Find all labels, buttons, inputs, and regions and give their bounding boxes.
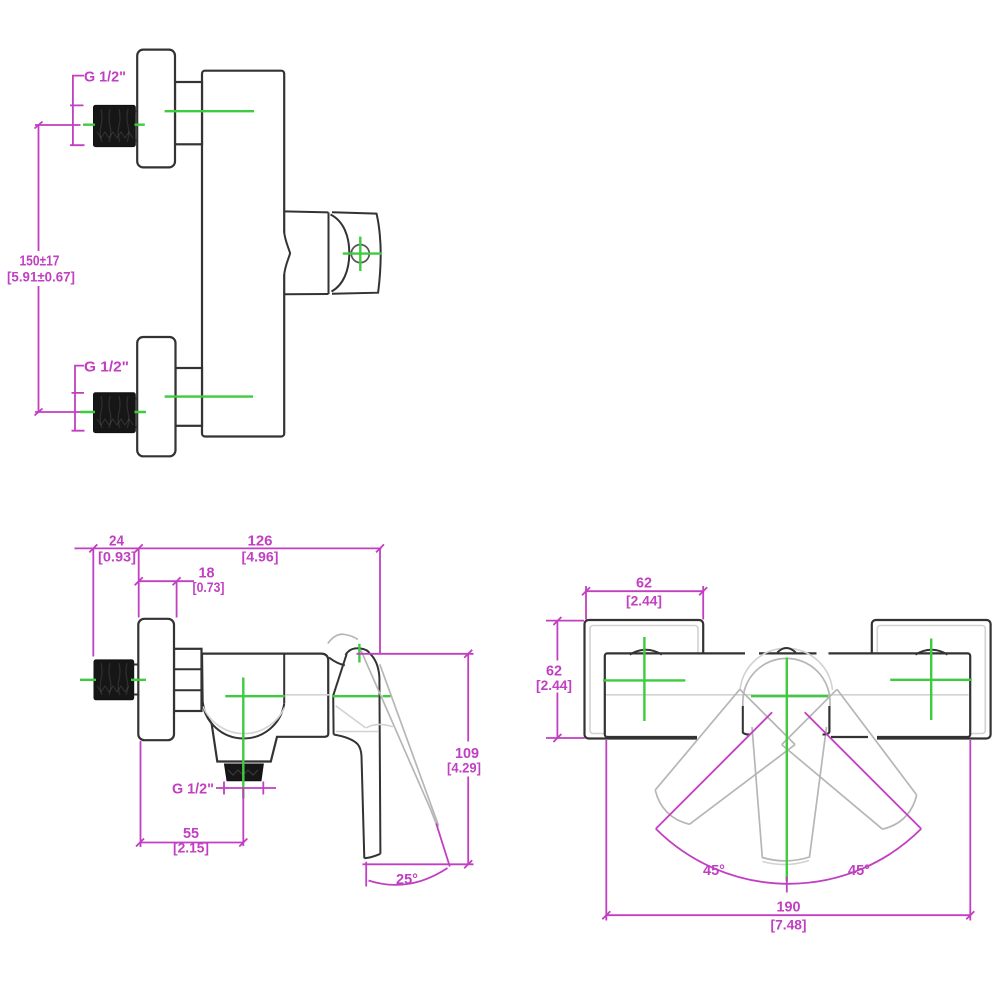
dimension 18 bbox=[139, 581, 194, 617]
body internal vertical edge bbox=[283, 654, 285, 704]
outlet protrusion (trapezoid walls) bbox=[284, 211, 328, 294]
lever tip bbox=[364, 854, 380, 859]
green cross right plate bbox=[890, 639, 972, 721]
svg-text:[2.44]: [2.44] bbox=[626, 593, 662, 609]
svg-text:[0.73]: [0.73] bbox=[193, 579, 225, 595]
green centerline bottom short (nipple) bbox=[80, 411, 146, 413]
side nipple (threaded) bbox=[94, 660, 138, 700]
svg-text:150±17: 150±17 bbox=[20, 253, 60, 270]
top nipple (threaded) bbox=[94, 105, 138, 146]
green handle pivot tick bbox=[358, 644, 360, 663]
svg-text:45°: 45° bbox=[703, 862, 725, 879]
dimension 190 bbox=[606, 740, 970, 921]
handle back edge bbox=[370, 653, 381, 854]
open-position lever tip (light) bbox=[430, 809, 438, 827]
main body bbox=[202, 71, 284, 437]
dark arch leg segments bbox=[743, 706, 830, 735]
light mid construction line bbox=[285, 694, 330, 696]
white-out on bar bottom edge behind levers bbox=[697, 734, 831, 740]
rotated lever right (light) bbox=[782, 689, 917, 829]
outer cap bbox=[332, 212, 381, 293]
dimension 62 top bbox=[586, 586, 703, 620]
green vertical centerline (outlet axis) bbox=[242, 678, 244, 799]
svg-text:[0.93]: [0.93] bbox=[98, 549, 136, 565]
open-position hump (light) bbox=[328, 634, 358, 643]
extension lines bbox=[93, 548, 380, 656]
handle hump (closed position) bbox=[346, 648, 370, 655]
lever front edge bbox=[334, 735, 365, 859]
bottom flange bbox=[137, 337, 175, 456]
top flange bbox=[137, 50, 175, 168]
bottom nipple (threaded) bbox=[94, 393, 138, 433]
svg-text:[4.29]: [4.29] bbox=[447, 760, 481, 776]
dome outer contour (light) bbox=[740, 648, 833, 690]
dimension 150±17 bbox=[35, 125, 81, 412]
svg-text:[2.44]: [2.44] bbox=[536, 677, 572, 693]
green centerline top long bbox=[165, 110, 254, 112]
dimension 55 bbox=[140, 741, 243, 847]
dimension 25° bbox=[366, 824, 450, 887]
lens / cartridge dome bbox=[328, 212, 330, 294]
svg-text:[7.48]: [7.48] bbox=[771, 917, 807, 933]
main body outline bbox=[202, 654, 328, 762]
bottom step bbox=[176, 368, 203, 426]
svg-text:G 1/2": G 1/2" bbox=[84, 359, 129, 376]
45° radial lines bbox=[656, 712, 921, 829]
green horizontal centerline (cartridge axis) bbox=[225, 695, 390, 697]
arc zero tick bbox=[786, 877, 788, 893]
right plate boss arc bbox=[916, 650, 948, 655]
hex adapter bbox=[174, 649, 202, 711]
svg-text:62: 62 bbox=[636, 575, 652, 592]
open-position neck contours (light) bbox=[336, 706, 393, 732]
left plate inner contour bbox=[590, 626, 698, 734]
green centerline nipple bbox=[80, 679, 146, 681]
dimension 109 bbox=[357, 654, 474, 865]
green centerline top short (nipple) bbox=[83, 123, 145, 125]
svg-text:126: 126 bbox=[248, 533, 273, 550]
svg-text:45°: 45° bbox=[848, 862, 870, 879]
svg-text:24: 24 bbox=[109, 533, 125, 550]
dark dome hump bbox=[777, 648, 796, 653]
svg-text:G 1/2": G 1/2" bbox=[172, 781, 214, 798]
light mid construction line bbox=[606, 694, 969, 696]
cartridge housing arc (body bottom) bbox=[203, 702, 285, 738]
svg-text:25°: 25° bbox=[396, 871, 418, 888]
svg-text:[4.96]: [4.96] bbox=[242, 549, 279, 565]
green center cross bbox=[751, 658, 828, 882]
svg-text:[5.91±0.67]: [5.91±0.67] bbox=[7, 269, 75, 285]
handle dome arch (light) bbox=[743, 658, 830, 732]
svg-text:[2.15]: [2.15] bbox=[173, 840, 209, 856]
green cross left plate bbox=[603, 637, 685, 721]
top step bbox=[175, 82, 202, 144]
green centerline bottom long bbox=[165, 395, 253, 397]
outlet thread block bbox=[225, 764, 264, 781]
main body bar bbox=[605, 653, 970, 737]
central lever (light) bbox=[752, 727, 827, 861]
dimension 24 / 126 line bbox=[75, 547, 382, 549]
dimension G 1/2" bottom bbox=[72, 366, 85, 431]
open-position lever front edge (light) bbox=[361, 651, 430, 809]
open-position lever back edge (light) bbox=[380, 664, 439, 825]
side flange bbox=[138, 619, 174, 740]
left wall plate bbox=[585, 620, 704, 739]
handle neck fillet bbox=[329, 658, 345, 666]
svg-text:G 1/2": G 1/2" bbox=[84, 69, 126, 86]
datum target circle bbox=[351, 245, 369, 263]
dimension 62 left bbox=[546, 621, 585, 738]
rotated lever left (light) bbox=[655, 689, 795, 824]
central lever tip second contour (light) bbox=[763, 861, 810, 865]
45° arc bbox=[656, 829, 921, 884]
handle neck front edge bbox=[333, 654, 346, 695]
right plate inner contour bbox=[877, 626, 985, 734]
dimension G 1/2" top bbox=[70, 76, 85, 146]
handle front edge along body bbox=[332, 696, 334, 735]
datum green cross bbox=[343, 237, 382, 271]
right wall plate bbox=[872, 620, 991, 739]
light secondary contour arc bbox=[203, 707, 285, 734]
left plate boss arc bbox=[630, 650, 662, 655]
white-outs on bar top edge at dome bbox=[745, 651, 759, 657]
svg-text:190: 190 bbox=[777, 899, 801, 916]
dimension G 1/2" outlet bbox=[216, 782, 276, 795]
break squiggle on body right edge bbox=[283, 233, 287, 275]
